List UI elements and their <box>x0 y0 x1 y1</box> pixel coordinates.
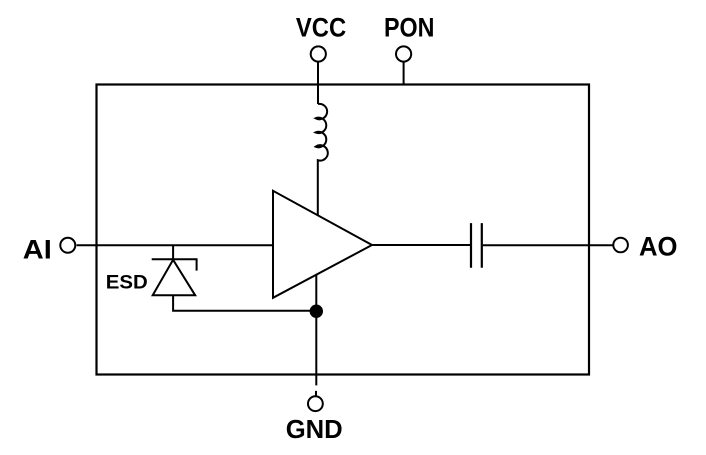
svg-text:VCC: VCC <box>296 12 346 42</box>
svg-text:GND: GND <box>286 414 343 444</box>
svg-text:PON: PON <box>384 12 435 42</box>
svg-text:ESD: ESD <box>106 273 148 294</box>
svg-text:AO: AO <box>639 232 678 262</box>
svg-text:AI: AI <box>23 235 52 265</box>
